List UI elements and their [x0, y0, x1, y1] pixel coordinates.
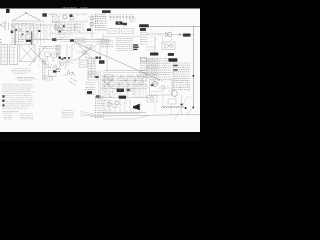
slant marks	[63, 72, 72, 75]
labels	[96, 38, 108, 40]
osc box	[49, 70, 57, 77]
diagonal B	[74, 44, 98, 61]
transformer T6	[116, 21, 123, 24]
junction dot	[192, 75, 194, 77]
resistor R6	[53, 58, 54, 63]
small tube	[61, 63, 64, 66]
wire bus1	[12, 20, 44, 22]
parts columns	[4, 113, 13, 115]
IF component forest	[55, 22, 57, 31]
IF scatter	[53, 14, 92, 35]
antenna L1	[12, 13, 26, 21]
bus components	[104, 76, 106, 78]
small tube V12	[61, 28, 64, 31]
trimmer C5	[45, 52, 50, 56]
chart rows	[140, 58, 171, 60]
tube V7	[172, 91, 178, 97]
coil chain L6	[162, 107, 185, 108]
stub	[154, 37, 156, 53]
bullet 1	[2, 95, 4, 97]
scan background	[0, 0, 200, 141]
tuner section box S1A	[1, 45, 8, 65]
RF text rows	[12, 23, 34, 25]
wafer box S1C	[20, 45, 36, 62]
tube V6b	[161, 86, 165, 90]
tuner section box S1B	[10, 45, 18, 65]
audio verticals	[102, 74, 104, 97]
resistor R5	[47, 57, 48, 63]
cap C21 dark	[127, 89, 130, 91]
IF can box1	[108, 29, 120, 34]
electrolytic FC1	[183, 34, 191, 37]
transformer T4	[70, 14, 73, 17]
tube V2	[70, 16, 74, 20]
transformer T7	[122, 23, 127, 25]
right vertical bus	[192, 26, 194, 107]
ladder terminal strip	[87, 58, 89, 78]
wire bus	[50, 13, 88, 15]
diag wire	[54, 36, 66, 42]
electrolytic C18	[87, 91, 92, 94]
choke L5	[168, 53, 174, 56]
cap C4 dark	[22, 34, 24, 36]
bullet 3	[2, 104, 4, 106]
film frame marker	[6, 9, 10, 13]
vert wires	[98, 70, 100, 98]
notes title	[17, 76, 34, 78]
crystal Y1	[67, 71, 70, 76]
discriminator box	[76, 38, 85, 43]
output transformer T9	[117, 89, 124, 92]
coupling cap C14	[70, 39, 74, 41]
center verticals	[59, 44, 61, 66]
loop antenna L2	[4, 21, 6, 30]
verticals	[104, 76, 106, 98]
branch	[135, 115, 148, 119]
dial labels slanted	[71, 78, 78, 82]
cap C9	[59, 31, 61, 33]
dark dash lower	[95, 76, 98, 78]
bottom verticals	[104, 100, 106, 113]
capacitor C1	[8, 22, 10, 30]
cap C10	[63, 25, 65, 27]
labels	[126, 88, 136, 90]
osc coil L3	[39, 48, 41, 58]
feed wire dark	[14, 30, 16, 45]
B+ label rows	[39, 45, 59, 47]
wire col	[56, 44, 58, 58]
right parts table	[174, 62, 190, 64]
junction dot2	[192, 107, 194, 109]
big cross wire 1	[28, 46, 50, 68]
tube V3 column	[91, 14, 93, 38]
audio cross	[101, 79, 113, 89]
tube V13	[57, 53, 59, 55]
amp triangle	[108, 102, 113, 107]
col ticks	[146, 58, 148, 80]
fan out	[80, 112, 95, 115]
big cross wire 2	[29, 46, 46, 66]
row labels	[104, 78, 144, 80]
left text col	[55, 45, 61, 47]
dark dash pair	[96, 57, 99, 59]
caps cluster	[59, 57, 62, 60]
resistor R20	[114, 106, 119, 107]
rows	[104, 100, 113, 102]
rectifier SR1	[168, 58, 177, 62]
connector header J1	[102, 10, 111, 13]
vert wire	[181, 95, 183, 116]
cap C12	[179, 33, 181, 35]
wire bus2	[10, 24, 56, 26]
tone box	[150, 80, 173, 96]
IF labels	[55, 34, 73, 36]
dark cells	[133, 44, 138, 46]
IF can with cross	[53, 16, 60, 23]
IF can box2	[122, 29, 134, 34]
cross C	[78, 45, 95, 62]
rows below	[104, 74, 114, 76]
xtal box	[87, 45, 92, 49]
dark cells	[173, 65, 178, 66]
bullet 2	[2, 100, 4, 102]
resistor R1	[46, 26, 47, 40]
connector pin rows	[95, 13, 96, 15]
tube V11 crossed	[55, 26, 59, 30]
amp box A2	[162, 42, 175, 50]
terminal strip TS1	[140, 28, 146, 31]
cap C22 dark	[151, 84, 154, 86]
small box	[168, 99, 176, 104]
long bottom wire	[90, 114, 200, 116]
transformer T2	[26, 40, 31, 42]
label cluster	[44, 64, 52, 66]
labels	[130, 18, 136, 20]
cross D	[78, 45, 93, 61]
RF small tubes	[12, 26, 14, 28]
relay box	[79, 60, 87, 67]
title text	[62, 7, 76, 9]
bottom buses	[103, 112, 146, 114]
RF grid verticals	[11, 23, 13, 44]
long right bus	[149, 25, 200, 27]
power transformer T8	[150, 53, 158, 56]
selector note text	[13, 68, 29, 70]
choke L4	[139, 24, 149, 27]
table bracket	[172, 62, 174, 91]
tube V10	[54, 65, 57, 68]
resistor R2	[49, 26, 50, 38]
audio bus rows	[102, 76, 147, 78]
dark bar wire	[31, 32, 33, 45]
terminal ladder TS2	[42, 58, 44, 80]
transformer T1	[11, 31, 14, 34]
tube V4	[167, 32, 171, 36]
B+ rows	[103, 70, 146, 72]
trimmer C6	[52, 53, 56, 57]
resistor rows	[86, 82, 96, 84]
main bus	[18, 39, 110, 41]
tuner scatter	[37, 46, 61, 69]
tube V9	[43, 61, 46, 64]
box innards	[151, 80, 163, 82]
align table left	[101, 40, 114, 42]
tube V5	[115, 101, 119, 105]
ladder text rows	[62, 59, 71, 61]
notes rows	[2, 83, 32, 85]
cap C19	[96, 95, 100, 98]
filter block C20	[119, 96, 126, 99]
cap C2 dark	[38, 30, 40, 32]
long diagonal A	[74, 42, 160, 80]
parts header	[2, 111, 19, 113]
heater pin row	[110, 16, 112, 18]
electrolytic C15	[99, 60, 105, 64]
margin marks	[0, 24, 3, 26]
wires	[172, 33, 184, 35]
speaker SP1	[133, 104, 140, 111]
cap C7 marks	[56, 68, 60, 70]
tube V6	[153, 82, 158, 87]
wires	[103, 36, 140, 38]
wire from dot	[186, 108, 193, 116]
transformer T5	[87, 29, 91, 32]
parts column	[95, 96, 96, 98]
dark dashes	[64, 57, 67, 59]
quadrant labels	[78, 51, 84, 53]
small parts rows	[62, 110, 74, 112]
chart frame	[141, 57, 146, 62]
cap C17	[53, 70, 56, 72]
psu box	[88, 72, 97, 80]
corner diagonal	[174, 96, 188, 120]
resistor R7	[59, 60, 60, 70]
transformer T3	[52, 38, 56, 41]
terminal block TB1	[42, 13, 47, 17]
code box	[44, 76, 53, 80]
rows right	[146, 59, 158, 61]
coil end dot	[185, 107, 187, 109]
wafer contacts	[2, 47, 7, 49]
RF scatter	[10, 23, 43, 44]
sub box	[147, 96, 157, 103]
align table right	[116, 38, 133, 40]
ground bus	[95, 97, 150, 99]
wire to amp	[147, 33, 165, 35]
cap C23 dark	[180, 104, 182, 106]
drop wires	[154, 102, 156, 112]
TS1 pin rows	[141, 32, 142, 34]
cap C3 dark	[15, 29, 17, 31]
tube V8 at cross	[83, 51, 87, 55]
tube V1	[63, 15, 67, 19]
